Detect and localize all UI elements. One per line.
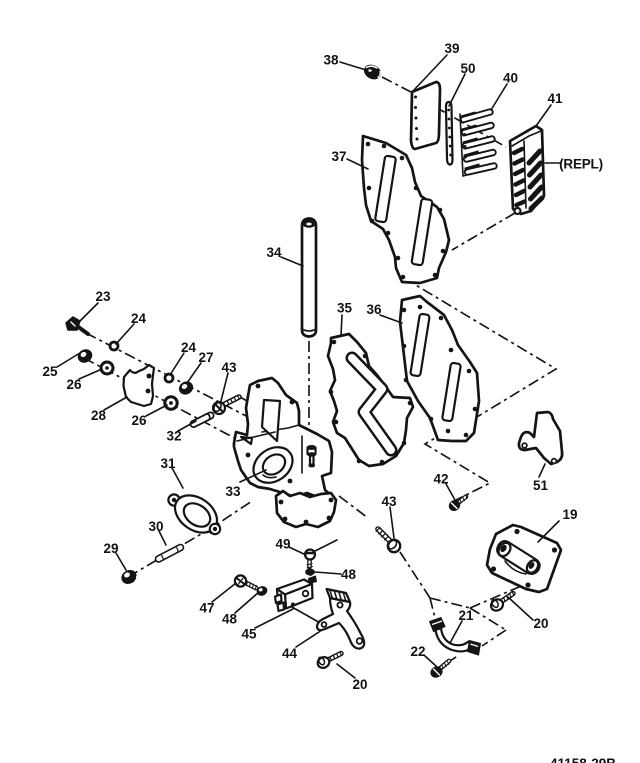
- svg-text:47: 47: [199, 601, 214, 616]
- leader 34: [281, 257, 303, 266]
- bracket 28: [124, 365, 155, 406]
- svg-text:45: 45: [241, 627, 257, 642]
- svg-text:44: 44: [282, 646, 298, 661]
- nut 38: [362, 62, 383, 81]
- svg-text:22: 22: [410, 644, 425, 659]
- svg-text:23: 23: [95, 289, 111, 304]
- nut 48b: [256, 585, 269, 597]
- box bracket 45: [275, 576, 317, 611]
- ball 24a: [110, 342, 118, 350]
- leader 22: [425, 656, 436, 666]
- gasket 35: [328, 334, 413, 466]
- svg-text:43: 43: [221, 360, 237, 375]
- dash axis screw 43a to 33: [240, 397, 254, 405]
- pin 32: [194, 414, 211, 424]
- svg-text:41: 41: [547, 91, 563, 106]
- plate 51: [519, 412, 562, 464]
- pin 30: [159, 548, 181, 560]
- svg-text:30: 30: [148, 519, 163, 534]
- body 33: [234, 378, 336, 527]
- reed set 40: [460, 112, 494, 176]
- bolt 20b: [489, 592, 514, 613]
- leader 26b: [146, 405, 167, 416]
- screw 49: [305, 550, 315, 569]
- screw 47: [235, 575, 256, 589]
- tube 34: [302, 219, 316, 337]
- leader 44: [296, 630, 322, 647]
- leader 28: [104, 397, 127, 410]
- dash axis 25 26 28 26 32 to 33: [84, 358, 240, 441]
- bolt 22: [429, 661, 449, 679]
- gasket 31: [168, 488, 224, 541]
- svg-text:51: 51: [533, 478, 549, 493]
- plate 39: [411, 82, 440, 149]
- clamp strap 21: [430, 618, 481, 656]
- ball 24b: [165, 374, 173, 382]
- dash axis 49 46 45: [310, 565, 311, 581]
- svg-text:33: 33: [225, 484, 241, 499]
- bolt 20a: [316, 652, 342, 670]
- leader 35: [341, 315, 342, 336]
- svg-text:20: 20: [533, 616, 548, 631]
- svg-text:34: 34: [266, 245, 282, 260]
- dash line vertex A to vertex B: [430, 598, 470, 608]
- dash axis 29 30 31 to 33: [128, 501, 252, 577]
- leader 40: [491, 84, 507, 110]
- svg-text:24: 24: [181, 340, 197, 355]
- svg-text:35: 35: [337, 301, 353, 316]
- leader 47: [212, 583, 236, 602]
- nut 27: [177, 380, 195, 397]
- leader 38: [340, 62, 366, 70]
- line 45 hole to 44 prong: [292, 607, 322, 624]
- leader 33: [240, 470, 266, 482]
- screw 23: [66, 317, 88, 334]
- leader 21: [450, 621, 462, 643]
- svg-text:31: 31: [160, 456, 176, 471]
- svg-text:32: 32: [166, 429, 181, 444]
- svg-text:37: 37: [331, 149, 346, 164]
- dash line 37 to vertex to 36: [404, 278, 556, 426]
- dash line vertex B through bolt 20b to 19: [470, 584, 526, 608]
- leader 20b: [508, 597, 533, 620]
- leader 24b: [170, 353, 184, 375]
- svg-text:26: 26: [66, 377, 82, 392]
- svg-text:40: 40: [503, 71, 518, 86]
- svg-text:50: 50: [460, 61, 475, 76]
- bracket 19: [487, 525, 561, 592]
- svg-text:(REPL): (REPL): [559, 157, 603, 172]
- leader 39: [413, 55, 447, 91]
- nut 25: [76, 347, 94, 364]
- line 49 head to 33 flange: [315, 540, 337, 551]
- svg-text:49: 49: [275, 537, 290, 552]
- leader 45: [255, 609, 293, 628]
- screw 43a: [213, 395, 240, 414]
- nut 29: [120, 568, 139, 586]
- svg-text:24: 24: [131, 311, 147, 326]
- leader 36: [380, 315, 402, 323]
- leader 27: [187, 363, 201, 383]
- leader 31: [172, 468, 183, 488]
- svg-text:29: 29: [103, 541, 118, 556]
- svg-text:28: 28: [91, 408, 107, 423]
- leader 43b: [390, 507, 394, 538]
- dash line 43b to vertex A: [400, 552, 430, 598]
- leader 43a: [221, 373, 228, 401]
- leader 41: [536, 105, 551, 126]
- dash line vertex B to vertex C: [470, 608, 506, 630]
- dash line 36 to vertex to vertex to screw 42: [425, 431, 490, 500]
- svg-text:26: 26: [131, 413, 147, 428]
- leader 23: [80, 303, 98, 321]
- dash line vertex C to 21 right clamp: [482, 630, 506, 646]
- gasket 37: [362, 136, 449, 283]
- leader 42: [446, 484, 455, 500]
- leader 51: [539, 464, 545, 477]
- svg-text:42: 42: [433, 472, 448, 487]
- dash line 41 to 37 corner: [452, 213, 515, 250]
- leader 37: [347, 159, 368, 169]
- svg-text:48: 48: [341, 567, 357, 582]
- dash line vertex A to 21 left clamp: [430, 598, 436, 622]
- svg-text:38: 38: [323, 53, 339, 68]
- leader 30: [159, 531, 166, 545]
- dash line 33 bottom to 43b: [339, 496, 368, 518]
- leader 26a: [79, 369, 102, 379]
- leader 29: [116, 553, 126, 570]
- screw 43b: [376, 528, 400, 553]
- dash axis bolt 22 to 21: [447, 655, 459, 663]
- leader 19: [538, 521, 559, 542]
- leader 20a: [337, 664, 355, 678]
- svg-text:36: 36: [366, 302, 382, 317]
- plate 36: [400, 296, 479, 441]
- reed block 41: [510, 126, 544, 214]
- nipple fitting on 33: [308, 448, 316, 466]
- leader 24a: [116, 324, 134, 344]
- leader 50: [449, 74, 465, 106]
- dash line 39 through 50 and 40 to 41: [416, 96, 506, 147]
- leader 32: [178, 421, 196, 431]
- svg-text:39: 39: [444, 41, 459, 56]
- dash centerline 34 to 33: [308, 341, 310, 452]
- bottom flange of 33: [276, 491, 336, 527]
- strip 50: [446, 102, 453, 165]
- leader 25: [57, 353, 80, 367]
- nut 48: [306, 569, 315, 575]
- leader 48: [315, 572, 341, 574]
- dash line 38 to 39: [382, 77, 411, 92]
- svg-text:43: 43: [381, 494, 397, 509]
- svg-text:25: 25: [42, 364, 58, 379]
- dash axis 23 24 28 24 27 to 33: [86, 333, 252, 419]
- svg-text:27: 27: [198, 350, 213, 365]
- dash axis 47 to 45: [256, 587, 268, 593]
- leader 49: [289, 547, 306, 555]
- svg-text:48: 48: [222, 612, 238, 627]
- svg-text:21: 21: [458, 608, 474, 623]
- svg-text:41158-29B: 41158-29B: [550, 756, 616, 763]
- washer 26b: [165, 397, 177, 409]
- leader REPL: [545, 162, 561, 164]
- svg-text:20: 20: [352, 677, 367, 692]
- screw 42: [447, 496, 467, 513]
- arm bracket 44: [317, 589, 364, 649]
- leader 48b: [235, 592, 259, 613]
- washer 26a: [101, 362, 113, 374]
- svg-text:19: 19: [562, 507, 577, 522]
